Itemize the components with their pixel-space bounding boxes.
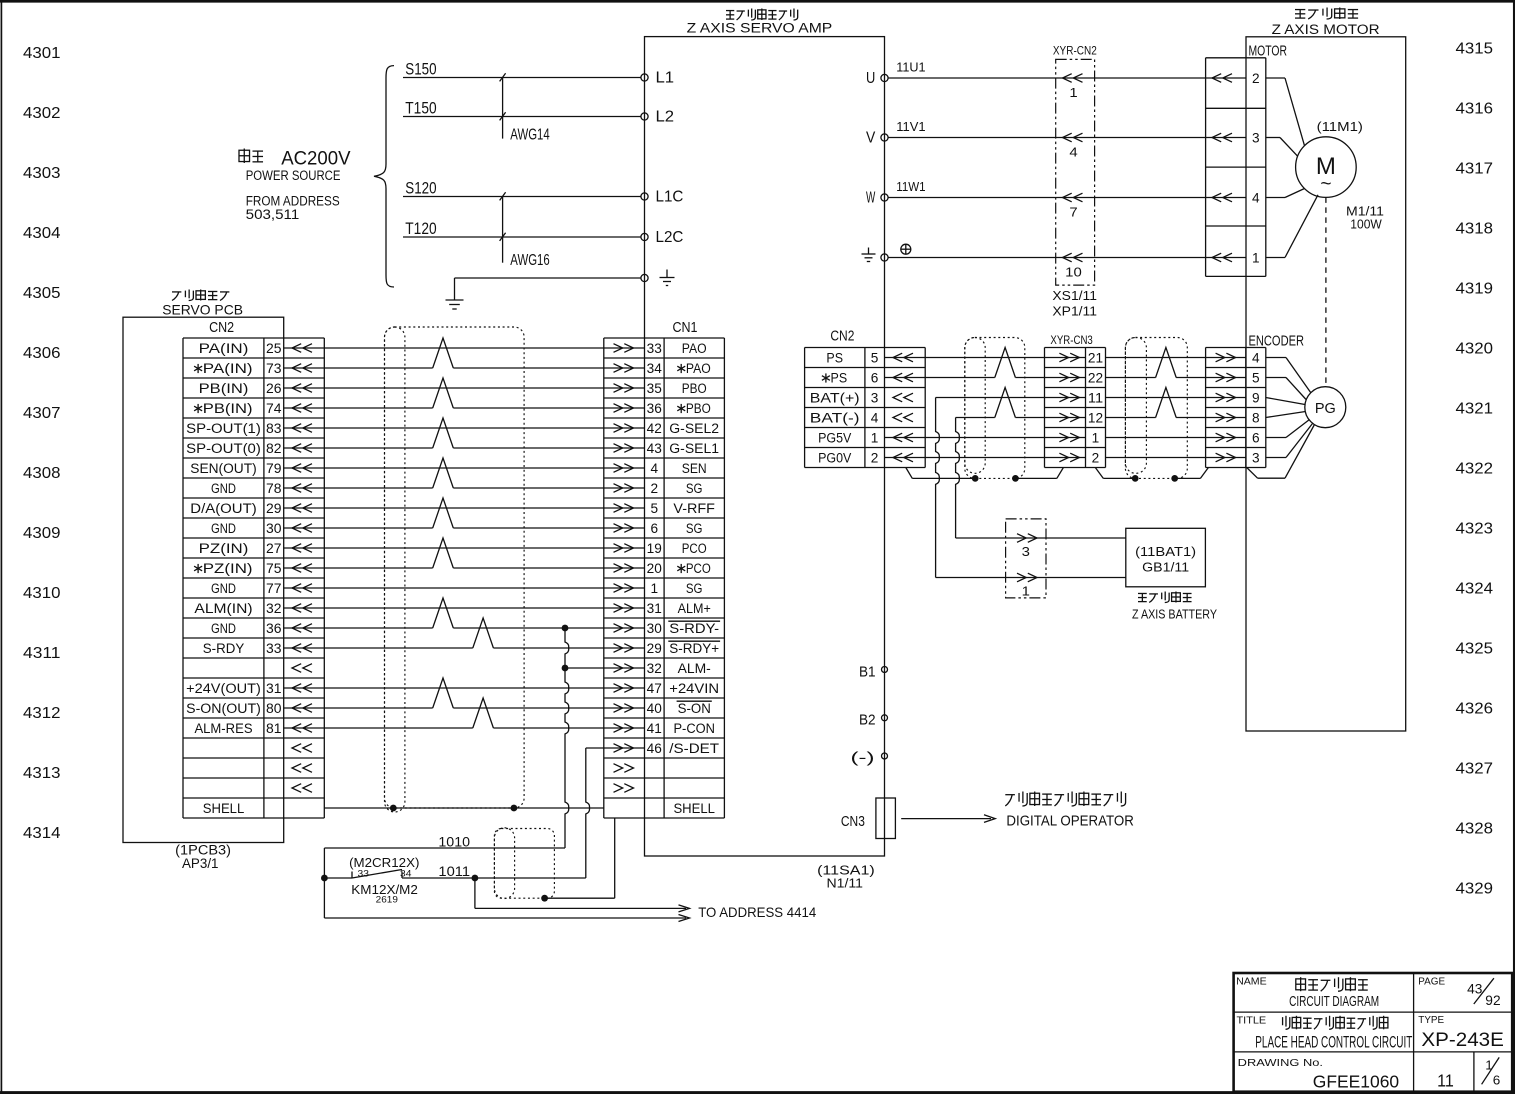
title block PAGE cell: 43/92 xyxy=(1418,975,1500,1008)
terminal U on servo amp right xyxy=(866,70,888,87)
svg-text:Z AXIS MOTOR: Z AXIS MOTOR xyxy=(1272,22,1380,37)
svg-text:80: 80 xyxy=(266,701,282,716)
shield capsule 1010/1011 (dotted) xyxy=(494,828,514,899)
svg-text:AP3/1: AP3/1 xyxy=(182,856,219,871)
CN1 row SEN pin 4 xyxy=(614,461,707,476)
svg-text:V: V xyxy=(866,130,876,147)
vertical wire node1011 to /S-DET xyxy=(586,748,590,878)
CN1 row spare xyxy=(614,764,634,773)
svg-text:XYR-CN2: XYR-CN2 xyxy=(1053,44,1097,58)
junction cable2 shield left xyxy=(972,475,979,482)
twisted pair symbol BAT pair xyxy=(995,388,1016,418)
svg-text:1011: 1011 xyxy=(438,864,470,879)
wire CN2-pcb row14 to CN1 xyxy=(284,607,645,609)
wire CN2-pcb row13 to CN1 xyxy=(284,587,645,589)
svg-text:PS: PS xyxy=(831,371,848,386)
motor connector pin 4 xyxy=(1212,191,1260,206)
wire XYR-CN3 1 to encoder 6 xyxy=(1106,437,1246,439)
wire CN2-pcb row12 to CN1 xyxy=(284,567,645,569)
svg-text:PA(IN): PA(IN) xyxy=(203,361,253,376)
svg-text:TITLE: TITLE xyxy=(1237,1015,1267,1027)
svg-text:33: 33 xyxy=(358,868,369,878)
wire SHELL row CN2-pcb to CN1 shell xyxy=(324,807,604,809)
svg-text:4301: 4301 xyxy=(23,45,61,62)
svg-text:PBO: PBO xyxy=(682,381,707,396)
svg-text:B2: B2 xyxy=(859,712,876,728)
svg-text:(11M1): (11M1) xyxy=(1317,119,1363,134)
cable3 shield capsule (dotted) xyxy=(1125,338,1146,474)
svg-text:AWG16: AWG16 xyxy=(510,252,549,269)
wire CN2-pcb row3 to CN1 xyxy=(284,387,645,389)
twisted pair symbols cable1 column2 xyxy=(473,618,494,728)
drain wire shield to CN1 shell xyxy=(545,818,615,898)
CN2 pcb row ALM(IN) pin 32 xyxy=(194,601,312,616)
svg-text:PBO: PBO xyxy=(686,401,711,416)
CN2 pcb row +24V(OUT) pin 31 xyxy=(186,681,312,696)
svg-text:74: 74 xyxy=(266,401,282,416)
svg-text:P-CON: P-CON xyxy=(673,721,715,736)
junction 1011 to address branch xyxy=(472,875,479,882)
label Z AXIS MOTOR xyxy=(1272,8,1380,38)
terminal B2 xyxy=(859,712,888,728)
CN2 amp row BAT(+) pin 3 xyxy=(810,391,913,406)
label Z AXIS SERVO AMP xyxy=(687,9,833,36)
svg-text:6: 6 xyxy=(651,521,659,536)
svg-text:82: 82 xyxy=(266,441,282,456)
svg-text:35: 35 xyxy=(647,381,662,396)
wire PG5V to XYR-CN3 1 xyxy=(885,437,1086,439)
encoder PG xyxy=(1305,387,1346,428)
svg-text:4306: 4306 xyxy=(23,345,61,362)
vertical wire left 1010/1011 branch xyxy=(323,848,325,918)
CN1 row +24VIN pin 47 xyxy=(614,681,720,696)
svg-text:SG: SG xyxy=(686,581,703,596)
svg-text:22: 22 xyxy=(1088,371,1103,386)
svg-text:SEN(OUT): SEN(OUT) xyxy=(190,461,256,476)
wire CN2-pcb row4 to CN1 xyxy=(284,407,645,409)
label SERVO PCB xyxy=(162,290,243,318)
cable2 shield capsule (dotted) xyxy=(965,338,985,474)
wire XYR-CN3 2 to encoder 3 xyxy=(1106,457,1246,459)
svg-text:4: 4 xyxy=(1252,351,1260,366)
wire CN2-pcb row16 to CN1 xyxy=(284,647,645,649)
svg-text:CN2: CN2 xyxy=(209,320,234,336)
CN2 pcb row GND pin 77 xyxy=(211,581,312,596)
CN2 pcb row spare xyxy=(292,744,312,753)
svg-text:4329: 4329 xyxy=(1456,881,1494,898)
CN2 pcb row SEN(OUT) pin 79 xyxy=(190,461,312,476)
wire encoder pin4 to PG xyxy=(1266,358,1311,394)
svg-text:78: 78 xyxy=(266,481,282,496)
svg-text:47: 47 xyxy=(647,681,662,696)
CN2 pcb row GND pin 78 xyxy=(211,481,312,496)
svg-text:5: 5 xyxy=(651,501,659,516)
wire motor pin1 to M xyxy=(1266,195,1318,258)
svg-text:T150: T150 xyxy=(405,100,436,118)
svg-text:1: 1 xyxy=(1252,251,1260,266)
svg-text:32: 32 xyxy=(266,601,282,616)
svg-text:~: ~ xyxy=(1320,174,1331,195)
svg-text:4322: 4322 xyxy=(1456,461,1494,478)
svg-text:2: 2 xyxy=(1092,451,1100,466)
svg-text:11V1: 11V1 xyxy=(896,119,925,134)
svg-text:N1/11: N1/11 xyxy=(827,876,864,891)
svg-text:1: 1 xyxy=(1092,431,1100,446)
svg-text:77: 77 xyxy=(266,581,282,596)
svg-text:PCO: PCO xyxy=(682,541,707,556)
wire CN2-pcb row5 to CN1 xyxy=(284,427,645,429)
twisted pair symbol cable3 BAT pair xyxy=(1156,388,1177,418)
svg-text:2: 2 xyxy=(651,481,659,496)
svg-text:PG: PG xyxy=(1315,401,1336,417)
svg-text:6: 6 xyxy=(871,371,879,386)
svg-text:4302: 4302 xyxy=(23,105,61,122)
terminal (-) xyxy=(851,751,888,767)
svg-text:4304: 4304 xyxy=(23,225,61,242)
encoder pin 8 xyxy=(1216,411,1260,426)
svg-text:43: 43 xyxy=(647,441,662,456)
wire *PS to XYR-CN3 22 xyxy=(885,377,1086,379)
drain wire cable3 xyxy=(1095,468,1208,479)
svg-text:SP-OUT(0): SP-OUT(0) xyxy=(186,441,261,456)
title block DRAWING No cell: GFEE1060 xyxy=(1238,1057,1400,1092)
twisted pair symbols cable1 column1 xyxy=(433,338,454,708)
CN2 pcb row S-RDY pin 33 xyxy=(203,641,312,656)
terminal V on servo amp right xyxy=(866,130,888,147)
wire CN2-pcb row7 to CN1 xyxy=(284,467,645,469)
svg-text:CN2: CN2 xyxy=(830,329,854,345)
CN2 pcb row ALM-RES pin 81 xyxy=(194,721,312,736)
wire CN2-pcb row2 to CN1 xyxy=(284,367,645,369)
XYR-CN3 pin 2 xyxy=(1059,451,1099,466)
CN1 row *PBO pin 36 xyxy=(614,401,711,416)
svg-text:6: 6 xyxy=(1252,431,1260,446)
wire CN2-pcb row19 to CN1 xyxy=(284,707,645,709)
svg-text:AWG14: AWG14 xyxy=(510,127,549,144)
svg-text:(-): (-) xyxy=(851,751,875,767)
XYR-CN3 pin 12 xyxy=(1059,411,1103,426)
left margin address numbers 4301-4314 xyxy=(23,45,61,842)
svg-text:S150: S150 xyxy=(405,61,436,79)
svg-text:75: 75 xyxy=(266,561,282,576)
svg-text:33: 33 xyxy=(647,341,662,356)
svg-text:BAT(+): BAT(+) xyxy=(810,391,860,406)
svg-text:+24V(OUT): +24V(OUT) xyxy=(186,681,261,696)
CN2 pcb row *PA(IN) pin 73 xyxy=(194,361,312,376)
wire PS to XYR-CN3 21 xyxy=(885,357,1086,359)
CN1 row SHELL xyxy=(673,801,715,816)
svg-text:L1: L1 xyxy=(656,70,675,87)
servo PCB box (1PCB3 AP3/1) xyxy=(123,317,284,842)
CN1 row V-RFF pin 5 xyxy=(614,501,715,516)
wire T120 to L2C xyxy=(403,220,641,238)
svg-text:ENCODER: ENCODER xyxy=(1249,334,1305,350)
svg-text:SERVO PCB: SERVO PCB xyxy=(162,302,243,318)
XYR-CN3 pin 21 xyxy=(1059,351,1103,366)
motor M (11M1) M1/11 100W xyxy=(1296,119,1384,232)
wire PE to motor xyxy=(888,257,1246,259)
svg-text:46: 46 xyxy=(647,741,662,756)
CN2 pcb row SP-OUT(0) pin 82 xyxy=(186,441,312,456)
svg-text:1: 1 xyxy=(871,431,879,446)
svg-text:PAO: PAO xyxy=(682,341,707,356)
twisted pair symbol cable3 PS pair xyxy=(1156,348,1177,378)
terminal B1 xyxy=(859,664,888,680)
terminal PE on servo amp right xyxy=(862,248,889,262)
svg-text:73: 73 xyxy=(266,361,282,376)
vertical wire node1010 to S-RDY- junction xyxy=(565,628,569,848)
svg-text:1: 1 xyxy=(1485,1059,1493,1073)
svg-text:11U1: 11U1 xyxy=(896,59,925,74)
svg-text:4328: 4328 xyxy=(1456,821,1494,838)
CN1 row ALM+ pin 31 xyxy=(614,601,711,616)
svg-text:/S-DET: /S-DET xyxy=(669,741,719,756)
wire encoder pin6 to PG xyxy=(1266,420,1310,438)
svg-text:SHELL: SHELL xyxy=(203,801,245,816)
stub wire ALM- node to CN1 pin32 xyxy=(565,667,645,669)
svg-text:GND: GND xyxy=(211,621,236,636)
encoder pin 3 xyxy=(1216,451,1260,466)
svg-text:7: 7 xyxy=(1069,205,1077,220)
encoder pin 4 xyxy=(1216,351,1260,366)
svg-text:NAME: NAME xyxy=(1236,975,1267,987)
CN2 pcb row GND pin 36 xyxy=(211,621,312,636)
svg-text:92: 92 xyxy=(1485,993,1500,1008)
cable tie AWG16 on S120/T120 xyxy=(500,192,550,269)
svg-text:32: 32 xyxy=(647,661,662,676)
svg-text:4317: 4317 xyxy=(1456,161,1494,178)
svg-text:GND: GND xyxy=(211,581,236,596)
wire XYR-CN3 21 to encoder 4 xyxy=(1106,357,1246,359)
CN1 row PCO pin 19 xyxy=(614,541,707,556)
right margin address numbers 4315-4329 xyxy=(1456,41,1494,898)
terminal L1C on servo amp xyxy=(641,189,684,206)
svg-text:30: 30 xyxy=(266,521,282,536)
svg-text:MOTOR: MOTOR xyxy=(1249,43,1288,59)
connector CN1 on servo amp - frame xyxy=(604,320,725,818)
CN2 pcb row GND pin 30 xyxy=(211,521,312,536)
terminal W on servo amp right xyxy=(866,190,888,207)
wire CN2-pcb row8 to CN1 xyxy=(284,487,645,489)
svg-text:42: 42 xyxy=(647,421,662,436)
svg-text:4314: 4314 xyxy=(23,825,61,842)
servo amplifier box (Z AXIS SERVO AMP) xyxy=(645,37,885,856)
label (11SA1) N1/11 xyxy=(817,863,875,891)
svg-text:CN3: CN3 xyxy=(841,814,865,830)
svg-text:ALM-: ALM- xyxy=(678,661,711,676)
terminal L1 on servo amp xyxy=(641,70,674,87)
motor box Z AXIS MOTOR xyxy=(1246,37,1406,731)
svg-text:79: 79 xyxy=(266,461,282,476)
wire BAT(-) to XYR-CN3 12 and battery xyxy=(956,418,1126,539)
svg-text:XYR-CN3: XYR-CN3 xyxy=(1050,333,1093,347)
CN2 amp row PS pin 5 xyxy=(826,351,913,366)
label (1PCB3) AP3/1 xyxy=(175,843,231,872)
svg-text:3: 3 xyxy=(1252,451,1260,466)
svg-text:ALM+: ALM+ xyxy=(678,601,711,616)
junction shield to shell wire left xyxy=(390,805,397,812)
motor power connector - frame xyxy=(1206,43,1287,276)
drain wire encoder shell to PG xyxy=(1247,425,1315,479)
label TO ADDRESS 4414 xyxy=(698,904,816,920)
svg-text:4315: 4315 xyxy=(1456,41,1494,58)
wire XYR-CN3 11 to encoder 9 xyxy=(1106,397,1246,399)
wire encoder pin8 to PG xyxy=(1266,412,1306,418)
svg-text:12: 12 xyxy=(1088,411,1103,426)
wire S150 to L1 xyxy=(403,61,641,79)
dashed shaft link M to PG xyxy=(1325,197,1327,386)
svg-text:36: 36 xyxy=(647,401,662,416)
svg-text:1: 1 xyxy=(1069,85,1077,100)
svg-text:PCO: PCO xyxy=(686,561,711,576)
junction on S-RDY- wire xyxy=(562,625,569,632)
shield outline 1010/1011 (dotted) xyxy=(494,829,554,899)
title block frame xyxy=(1234,973,1513,1092)
wire CN2-pcb row18 to CN1 xyxy=(284,687,645,689)
battery GB1/11 (11BAT1) xyxy=(1126,528,1206,587)
svg-text:PA(IN): PA(IN) xyxy=(199,341,249,356)
CN2 amp row PG0V pin 2 xyxy=(818,451,913,466)
svg-text:B1: B1 xyxy=(859,664,876,680)
CN1 row S-RDY- pin 30 xyxy=(614,621,721,636)
svg-text:Z AXIS BATTERY: Z AXIS BATTERY xyxy=(1132,606,1217,621)
svg-text:11: 11 xyxy=(1437,1070,1454,1090)
svg-text:CIRCUIT DIAGRAM: CIRCUIT DIAGRAM xyxy=(1289,993,1379,1010)
connector CN2 on servo amp - frame xyxy=(805,329,926,468)
svg-text:4319: 4319 xyxy=(1456,281,1494,298)
svg-text:TYPE: TYPE xyxy=(1418,1014,1444,1026)
junction shield to shell wire right xyxy=(511,805,518,812)
junction cable2 shield right xyxy=(1012,475,1019,482)
svg-text:D/A(OUT): D/A(OUT) xyxy=(190,501,256,516)
wire 1010 xyxy=(324,835,565,850)
CN1 row P-CON pin 41 xyxy=(614,721,715,736)
svg-text:(11BAT1): (11BAT1) xyxy=(1135,544,1196,559)
svg-text:GB1/11: GB1/11 xyxy=(1142,560,1189,575)
svg-text:1: 1 xyxy=(651,581,659,596)
title block NAME cell: CIRCUIT DIAGRAM xyxy=(1236,975,1379,1010)
cable2 shield outline (dotted) xyxy=(965,338,1025,479)
svg-text:5: 5 xyxy=(871,351,879,366)
wire encoder pin9 to PG xyxy=(1266,398,1305,405)
svg-text:POWER SOURCE: POWER SOURCE xyxy=(246,168,341,183)
svg-text:34: 34 xyxy=(647,361,663,376)
svg-text:27: 27 xyxy=(266,541,282,556)
label POWER SOURCE AC200V block xyxy=(239,148,351,222)
arrow CN3 to digital operator xyxy=(901,815,995,823)
svg-text:W: W xyxy=(866,190,876,207)
svg-text:PG0V: PG0V xyxy=(818,451,851,466)
svg-text:2: 2 xyxy=(1252,71,1260,86)
junction cable3 shield left xyxy=(1132,475,1139,482)
wire motor pin2 to M xyxy=(1266,78,1305,146)
svg-text:AC200V: AC200V xyxy=(281,148,351,169)
svg-text:PB(IN): PB(IN) xyxy=(203,401,253,416)
svg-text:4320: 4320 xyxy=(1456,341,1494,358)
CN1 row /S-DET pin 46 xyxy=(614,741,720,756)
svg-text:8: 8 xyxy=(1252,411,1260,426)
svg-text:PAO: PAO xyxy=(686,361,711,376)
svg-text:SEN: SEN xyxy=(682,461,707,476)
wire 1011 xyxy=(324,864,585,879)
title block sheet 11 xyxy=(1437,1070,1454,1090)
svg-text:33: 33 xyxy=(266,641,282,656)
svg-text:L2: L2 xyxy=(656,109,675,126)
svg-text:4310: 4310 xyxy=(23,585,61,602)
encoder pin 6 xyxy=(1216,431,1260,446)
CN1 row S-ON pin 40 xyxy=(614,701,712,716)
svg-text:4303: 4303 xyxy=(23,165,61,182)
svg-text:SHELL: SHELL xyxy=(673,801,715,816)
XYR-CN3 pin 22 xyxy=(1059,371,1103,386)
svg-text:1010: 1010 xyxy=(438,835,470,850)
CN2 pcb row spare xyxy=(292,784,312,793)
svg-text:S120: S120 xyxy=(405,180,436,198)
svg-text:6: 6 xyxy=(1493,1073,1501,1087)
svg-text:10: 10 xyxy=(1065,265,1082,280)
svg-text:4: 4 xyxy=(1252,191,1260,206)
svg-text:G-SEL1: G-SEL1 xyxy=(669,441,719,456)
motor connector pin 3 xyxy=(1212,131,1260,146)
svg-text:V-RFF: V-RFF xyxy=(673,501,715,516)
svg-text:1: 1 xyxy=(1022,584,1030,599)
wire 11V1 V phase to motor xyxy=(888,119,1246,138)
brace grouping power source wires xyxy=(374,66,394,287)
CN1 row PBO pin 35 xyxy=(614,381,707,396)
svg-text:S-ON: S-ON xyxy=(678,701,711,716)
svg-text:Z AXIS SERVO AMP: Z AXIS SERVO AMP xyxy=(687,21,833,36)
label DIGITAL OPERATOR xyxy=(1005,792,1134,830)
svg-text:XP1/11: XP1/11 xyxy=(1052,304,1097,318)
svg-text:11W1: 11W1 xyxy=(896,179,925,194)
wire PE input to servo amp ground terminal xyxy=(455,278,641,300)
svg-text:4327: 4327 xyxy=(1456,761,1494,778)
CN1 row G-SEL1 pin 43 xyxy=(614,441,720,456)
svg-text:SG: SG xyxy=(686,481,703,496)
svg-text:PG5V: PG5V xyxy=(818,431,851,446)
svg-text:41: 41 xyxy=(647,721,662,736)
CN1 row *PAO pin 34 xyxy=(614,361,711,376)
wire XYR-CN3 22 to encoder 5 xyxy=(1106,377,1246,379)
wire CN2-pcb row20 to CN1 xyxy=(284,727,645,729)
terminal L2 on servo amp xyxy=(641,109,674,126)
svg-text:4: 4 xyxy=(651,461,659,476)
CN2 pcb row D/A(OUT) pin 29 xyxy=(190,501,312,516)
svg-text:4309: 4309 xyxy=(23,525,61,542)
svg-text:4321: 4321 xyxy=(1456,401,1494,418)
svg-text:4324: 4324 xyxy=(1456,581,1494,598)
wire to address 4414 lower xyxy=(324,915,689,922)
svg-text:4312: 4312 xyxy=(23,705,61,722)
CN2 pcb row spare xyxy=(292,764,312,773)
svg-text:4325: 4325 xyxy=(1456,641,1494,658)
CN2 pcb row *PB(IN) pin 74 xyxy=(194,401,312,416)
svg-text:26: 26 xyxy=(266,381,282,396)
CN1 row *PCO pin 20 xyxy=(614,561,711,576)
wire to address 4414 upper xyxy=(475,878,690,912)
title block sheet 1/6 xyxy=(1482,1057,1501,1087)
CN1 row PAO pin 33 xyxy=(614,341,707,356)
svg-text:DIGITAL OPERATOR: DIGITAL OPERATOR xyxy=(1006,814,1134,830)
connector XYR-CN3 - frame xyxy=(1045,333,1106,468)
svg-text:4323: 4323 xyxy=(1456,521,1494,538)
svg-text:G-SEL2: G-SEL2 xyxy=(669,421,719,436)
cable1 shield outline (dotted) xyxy=(385,327,525,808)
svg-text:L2C: L2C xyxy=(656,229,684,246)
twisted pair symbol PS pair xyxy=(995,348,1016,378)
svg-text:DRAWING No.: DRAWING No. xyxy=(1238,1057,1323,1069)
motor connector pin 2 xyxy=(1212,71,1260,86)
